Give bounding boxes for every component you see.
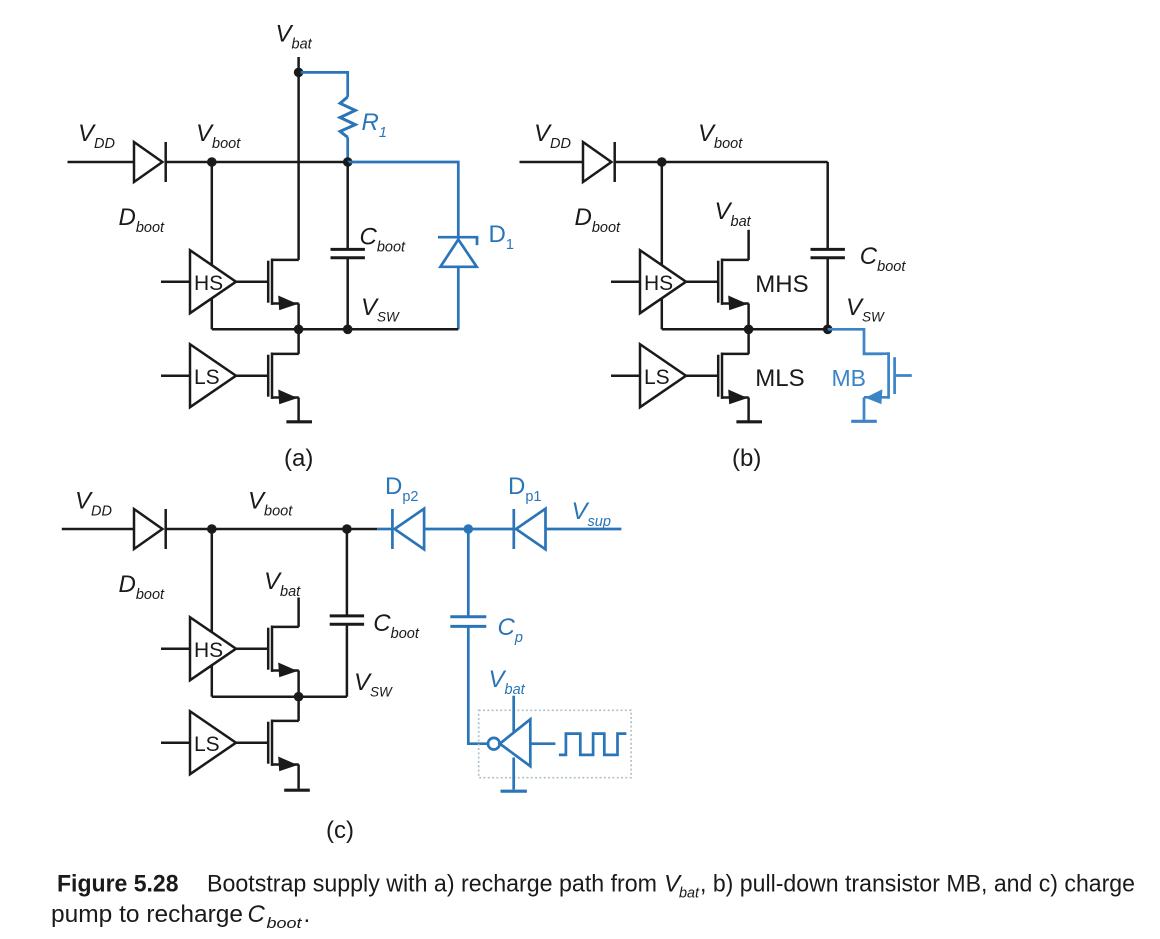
wire MLS source to ground (b) bbox=[747, 398, 750, 422]
wire Vbat stub to MHS drain (b) bbox=[747, 230, 750, 260]
resistor R1 bbox=[340, 97, 355, 137]
wire MHS source to VSW (b) bbox=[747, 304, 750, 330]
svg-text:HS: HS bbox=[644, 272, 673, 295]
junction dot MHS source on VSW (b) bbox=[744, 325, 754, 335]
wire D1 anode to VSW rail (blue) bbox=[457, 267, 460, 330]
capacitor Cboot (a) bbox=[331, 249, 365, 257]
wire LS output to MLS gate (b) bbox=[686, 374, 718, 377]
wire Vbat to inverter top (blue) bbox=[512, 696, 515, 732]
diode Dp1 (blue) bbox=[514, 509, 546, 550]
wire Dboot cathode to Cboot (b) bbox=[615, 161, 828, 164]
svg-text:HS: HS bbox=[194, 272, 223, 295]
svg-text:bat: bat bbox=[679, 886, 700, 902]
junction dot Vbat / R1 branch (a) bbox=[294, 68, 304, 78]
inverter U1 (blue, pointing left) bbox=[488, 719, 530, 766]
clock waveform (blue) bbox=[559, 734, 627, 755]
svg-text:Cboot: Cboot bbox=[360, 223, 407, 255]
wire MLS drain to VSW (c) bbox=[297, 697, 300, 721]
ground MLS (b) bbox=[736, 420, 762, 423]
wire HS bottom supply to VSW (a) bbox=[211, 299, 214, 330]
wire MLS drain to VSW (b) bbox=[747, 329, 750, 354]
diode D1 (blue, cathode bar with hook) bbox=[438, 237, 478, 267]
svg-text:Bootstrap supply with a) recha: Bootstrap supply with a) recharge path f… bbox=[207, 871, 657, 898]
wire Cp to inverter output (blue) bbox=[468, 626, 487, 743]
dotted box around oscillator bbox=[479, 710, 631, 777]
junction dot Cboot top (c) bbox=[342, 524, 352, 534]
svg-text:VSW: VSW bbox=[354, 669, 393, 700]
wire VSW rail (c) bbox=[212, 695, 347, 698]
ground inverter (blue) bbox=[501, 790, 527, 793]
wire LS input stub (c) bbox=[161, 741, 190, 744]
junction dot MHS source on VSW (a) bbox=[294, 325, 304, 335]
wire VDD to Dboot anode (b) bbox=[520, 161, 584, 164]
junction dot node Vboot (c) bbox=[207, 524, 217, 534]
svg-text:MB: MB bbox=[832, 365, 867, 391]
wire Vboot node to Cboot (a) bbox=[346, 162, 349, 249]
svg-text:VDD: VDD bbox=[75, 488, 112, 520]
svg-text:Cp: Cp bbox=[498, 614, 523, 646]
wire VDD to Dboot anode (c) bbox=[62, 528, 134, 531]
junction dot MHS source on VSW (c) bbox=[294, 692, 304, 702]
ground (a) bbox=[286, 420, 312, 423]
capacitor Cboot (c) bbox=[330, 616, 364, 624]
wire Cboot to VSW node (b) bbox=[826, 258, 829, 330]
capacitor Cp (blue) bbox=[450, 617, 486, 627]
wire MLS drain to VSW (a) bbox=[297, 329, 300, 354]
svg-text:MHS: MHS bbox=[755, 271, 808, 298]
svg-text:D1: D1 bbox=[489, 221, 514, 253]
wire VSW rail (a) bbox=[212, 328, 458, 331]
svg-text:Dp1: Dp1 bbox=[508, 473, 541, 505]
wire MHS source to VSW (a) bbox=[297, 304, 300, 330]
wire Vboot to HS positive supply (c) bbox=[211, 529, 214, 632]
wire MLS source to ground (c) bbox=[297, 765, 300, 789]
svg-text:LS: LS bbox=[194, 366, 220, 389]
wire Vbat branch to R1 (blue) bbox=[301, 72, 348, 97]
svg-text:LS: LS bbox=[194, 733, 220, 756]
svg-text:Figure 5.28: Figure 5.28 bbox=[57, 871, 179, 898]
wire HS input stub (c) bbox=[161, 647, 190, 650]
buffer HS (c) bbox=[190, 617, 236, 680]
svg-text:VDD: VDD bbox=[78, 120, 115, 152]
junction dot Cboot on VSW (a) bbox=[343, 325, 353, 335]
svg-text:Vbat: Vbat bbox=[715, 198, 752, 230]
svg-text:(a): (a) bbox=[284, 445, 313, 472]
svg-text:Dboot: Dboot bbox=[119, 204, 166, 236]
svg-text:Cboot: Cboot bbox=[373, 610, 420, 642]
junction dot pump node (blue) bbox=[464, 524, 474, 534]
ground MLS (c) bbox=[284, 789, 310, 792]
junction dot node Vboot (a) bbox=[207, 157, 217, 167]
caption line 2 bbox=[51, 901, 310, 932]
svg-text:Vboot: Vboot bbox=[698, 120, 743, 152]
buffer LS (c) bbox=[190, 711, 236, 774]
ground MB (blue) bbox=[851, 420, 877, 423]
wire Cboot to VSW (a) bbox=[346, 258, 349, 330]
transistor MHS (a) bbox=[268, 259, 299, 311]
wire VSW to MB drain (blue) bbox=[828, 329, 883, 354]
svg-text:, b) pull-down transistor MB,: , b) pull-down transistor MB, and c) cha… bbox=[700, 871, 1135, 898]
diode Dp2 (blue) bbox=[392, 509, 424, 550]
wire VDD to Dboot anode (a) bbox=[68, 161, 135, 164]
svg-text:Vbat: Vbat bbox=[264, 568, 301, 600]
svg-text:Dp2: Dp2 bbox=[385, 473, 418, 505]
buffer LS (b) bbox=[640, 344, 686, 407]
svg-text:boot: boot bbox=[267, 916, 303, 932]
svg-text:VDD: VDD bbox=[534, 120, 571, 152]
svg-text:Dboot: Dboot bbox=[575, 204, 622, 236]
junction dot node Vboot (b) bbox=[657, 157, 667, 167]
wire MLS source to ground (a) bbox=[297, 398, 300, 422]
svg-text:Vsup: Vsup bbox=[572, 498, 611, 530]
svg-text:Vboot: Vboot bbox=[248, 488, 293, 520]
wire HS output to MHS gate (c) bbox=[236, 647, 268, 650]
transistor MLS (a) bbox=[268, 353, 299, 405]
wire inverter bottom to ground (blue) bbox=[512, 758, 515, 790]
wire Vboot to HS positive supply (a) bbox=[211, 162, 214, 265]
wire MB gate stub (blue) bbox=[895, 374, 912, 377]
wire Cboot to VSW rail (c) bbox=[346, 624, 349, 696]
svg-text:Vbat: Vbat bbox=[489, 666, 526, 698]
svg-text:C: C bbox=[248, 901, 266, 928]
wire HS input stub (b) bbox=[611, 280, 640, 283]
wire LS output to MLS gate (a) bbox=[236, 374, 268, 377]
svg-text:Cboot: Cboot bbox=[860, 243, 907, 275]
wire LS input stub (b) bbox=[611, 374, 640, 377]
wire Vbat stub to MHS drain (c) bbox=[297, 598, 300, 627]
wire inverter input stub (blue) bbox=[530, 742, 555, 745]
wire VSW rail (b) bbox=[662, 328, 828, 331]
wire MB source to ground (blue) bbox=[863, 397, 866, 420]
wire Dboot cathode to rail end (c) bbox=[166, 528, 378, 531]
wire MHS source to VSW (c) bbox=[297, 671, 300, 697]
svg-text:Vboot: Vboot bbox=[196, 120, 241, 152]
svg-text:Dboot: Dboot bbox=[119, 571, 166, 603]
svg-text:VSW: VSW bbox=[361, 294, 400, 325]
caption line 1 bbox=[57, 871, 1135, 902]
wire HS output to MHS gate (a) bbox=[236, 280, 268, 283]
svg-text:.: . bbox=[304, 901, 311, 928]
diode Dboot (a) bbox=[134, 142, 166, 182]
svg-text:HS: HS bbox=[194, 639, 223, 662]
wire Dp2 anode to pump node (blue) bbox=[424, 528, 466, 531]
wire Dp1 anode to Vsup (blue) bbox=[546, 528, 622, 531]
wire Dboot cathode to R1 junction (a) bbox=[166, 161, 348, 164]
junction dot Cboot on VSW (b) bbox=[823, 325, 833, 335]
transistor MLS (b) bbox=[718, 353, 749, 405]
wire R1 to Vboot rail (blue) bbox=[346, 137, 349, 162]
transistor MHS (b) bbox=[718, 259, 749, 311]
svg-text:VSW: VSW bbox=[846, 294, 885, 325]
transistor MB (blue) bbox=[864, 352, 895, 404]
wire Vboot to Dp2 cathode (blue) bbox=[377, 528, 392, 531]
buffer HS (a) bbox=[190, 250, 236, 313]
buffer LS (a) bbox=[190, 344, 236, 407]
svg-text:LS: LS bbox=[644, 366, 670, 389]
wire Vboot node to D1 cathode (blue) bbox=[348, 162, 459, 237]
wire HS bottom supply to VSW (c) bbox=[211, 666, 214, 697]
svg-text:MLS: MLS bbox=[755, 365, 804, 392]
svg-text:(c): (c) bbox=[326, 817, 354, 844]
transistor MLS (c) bbox=[268, 720, 299, 772]
wire HS bottom supply to VSW (b) bbox=[661, 299, 664, 330]
wire Vbat to MHS drain (a) bbox=[297, 57, 300, 260]
buffer HS (b) bbox=[640, 250, 686, 313]
wire rail corner down to Cboot (b) bbox=[826, 162, 829, 249]
wire Vboot to HS positive supply (b) bbox=[661, 162, 664, 265]
wire LS output to MLS gate (c) bbox=[236, 741, 268, 744]
wire HS output to MHS gate (b) bbox=[686, 280, 718, 283]
wire HS input stub (a) bbox=[161, 280, 190, 283]
wire LS input stub (a) bbox=[161, 374, 190, 377]
diode Dboot (b) bbox=[583, 142, 615, 182]
svg-text:R1: R1 bbox=[362, 109, 387, 141]
wire Vboot node to Cboot (c) bbox=[346, 529, 349, 616]
svg-text:Vbat: Vbat bbox=[276, 21, 313, 53]
wire pump node down to Cp (blue) bbox=[467, 529, 470, 617]
junction dot R1 / Cboot (a) bbox=[343, 157, 353, 167]
transistor MHS (c) bbox=[268, 626, 299, 678]
svg-text:(b): (b) bbox=[732, 445, 761, 472]
diode Dboot (c) bbox=[134, 509, 166, 549]
wire pump node to Dp1 cathode (blue) bbox=[471, 528, 514, 531]
capacitor Cboot (b) bbox=[811, 249, 845, 257]
svg-text:pump to recharge: pump to recharge bbox=[51, 901, 243, 928]
